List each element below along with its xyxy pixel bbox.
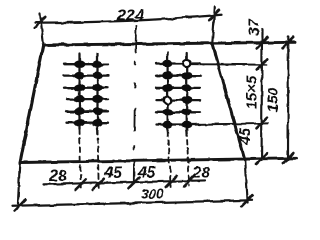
svg-text:45: 45 — [103, 165, 123, 182]
svg-text:45: 45 — [137, 165, 157, 182]
svg-text:150: 150 — [265, 87, 282, 113]
svg-text:45: 45 — [237, 127, 254, 145]
svg-text:300: 300 — [141, 187, 164, 202]
svg-text:28: 28 — [191, 165, 210, 182]
svg-text:37: 37 — [246, 19, 263, 36]
svg-text:28: 28 — [48, 168, 67, 185]
svg-text:15×5: 15×5 — [244, 75, 261, 109]
svg-text:224: 224 — [116, 8, 144, 25]
